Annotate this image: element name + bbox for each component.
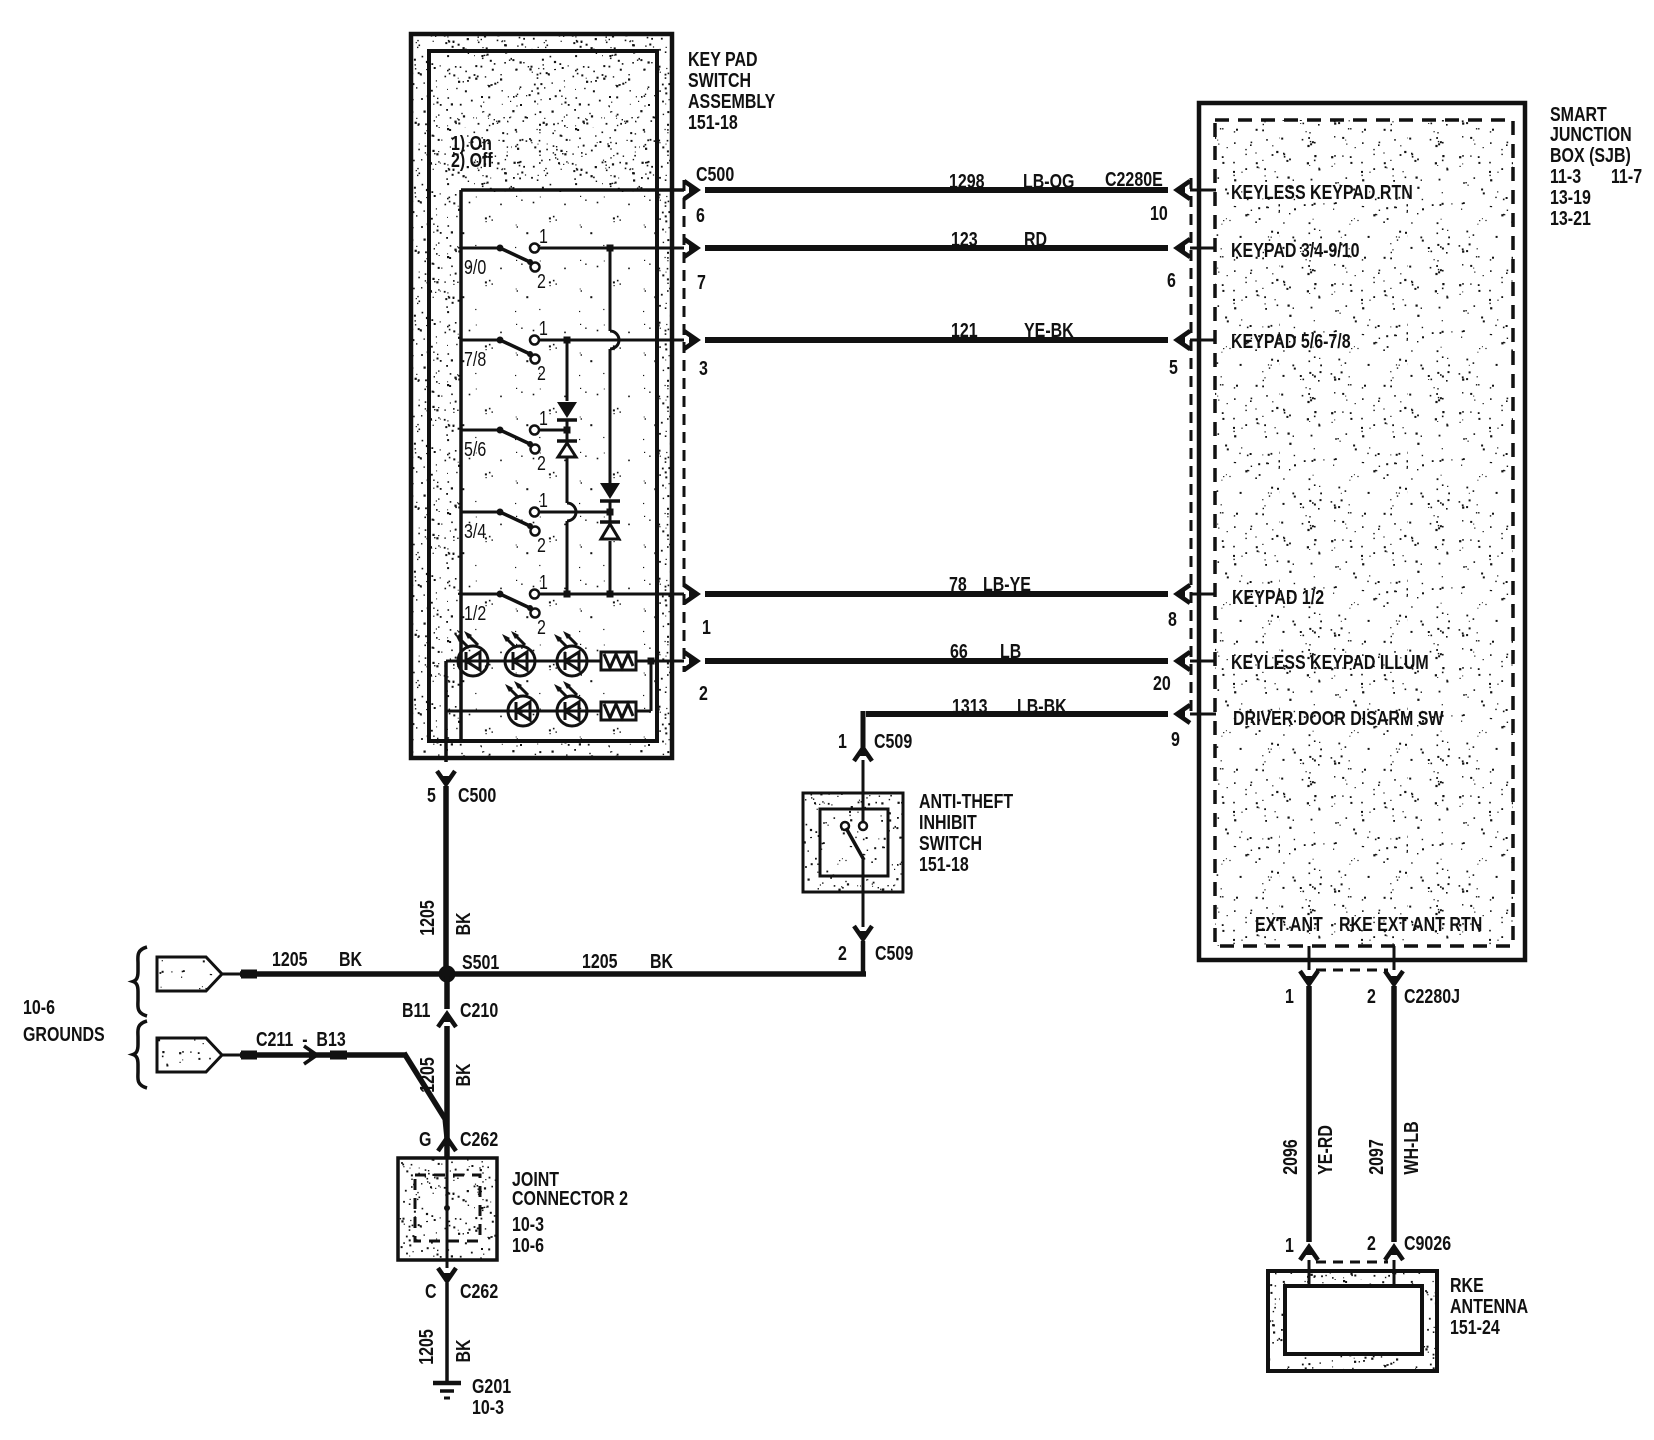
svg-text:KEYLESS KEYPAD RTN: KEYLESS KEYPAD RTN bbox=[1231, 180, 1413, 203]
svg-text:2: 2 bbox=[537, 451, 546, 474]
svg-text:LB-YE: LB-YE bbox=[983, 572, 1031, 595]
svg-text:10-3: 10-3 bbox=[512, 1212, 544, 1235]
svg-text:2: 2 bbox=[1367, 984, 1376, 1007]
svg-text:1: 1 bbox=[702, 615, 711, 638]
svg-text:1: 1 bbox=[1285, 984, 1294, 1007]
svg-text:8: 8 bbox=[1168, 607, 1177, 630]
svg-text:151-24: 151-24 bbox=[1450, 1315, 1500, 1338]
svg-text:2097: 2097 bbox=[1364, 1139, 1387, 1175]
svg-text:5: 5 bbox=[1169, 355, 1178, 378]
svg-text:ANTENNA: ANTENNA bbox=[1450, 1294, 1528, 1317]
svg-text:1205: 1205 bbox=[415, 1057, 438, 1093]
svg-text:GROUNDS: GROUNDS bbox=[23, 1022, 105, 1045]
svg-text:DRIVER DOOR DISARM SW: DRIVER DOOR DISARM SW bbox=[1233, 706, 1444, 729]
svg-text:78: 78 bbox=[949, 572, 967, 595]
svg-text:RKE EXT ANT RTN: RKE EXT ANT RTN bbox=[1339, 912, 1482, 935]
svg-text:KEYPAD 5/6-7/8: KEYPAD 5/6-7/8 bbox=[1231, 329, 1351, 352]
svg-text:C500: C500 bbox=[458, 783, 496, 806]
svg-text:C2280J: C2280J bbox=[1404, 984, 1460, 1007]
svg-text:3/4: 3/4 bbox=[464, 519, 486, 542]
svg-text:5: 5 bbox=[427, 783, 436, 806]
svg-text:151-18: 151-18 bbox=[919, 852, 969, 875]
svg-text:BK: BK bbox=[451, 1339, 474, 1363]
svg-text:13-21: 13-21 bbox=[1550, 206, 1591, 229]
svg-text:121: 121 bbox=[951, 318, 978, 341]
svg-text:G201: G201 bbox=[472, 1374, 511, 1397]
svg-text:C262: C262 bbox=[460, 1279, 498, 1302]
svg-text:1: 1 bbox=[838, 729, 847, 752]
svg-text:1: 1 bbox=[539, 488, 548, 511]
svg-text:SWITCH: SWITCH bbox=[919, 831, 982, 854]
svg-text:1205: 1205 bbox=[414, 1329, 437, 1365]
svg-text:WH-LB: WH-LB bbox=[1399, 1121, 1422, 1174]
svg-text:10-6: 10-6 bbox=[23, 995, 55, 1018]
svg-text:LB-OG: LB-OG bbox=[1023, 169, 1074, 192]
svg-text:1: 1 bbox=[539, 570, 548, 593]
svg-text:KEYPAD 3/4-9/10: KEYPAD 3/4-9/10 bbox=[1231, 238, 1360, 261]
svg-text:BK: BK bbox=[650, 949, 674, 972]
svg-text:KEY PAD: KEY PAD bbox=[688, 47, 758, 70]
svg-text:C500: C500 bbox=[696, 162, 734, 185]
svg-text:1205: 1205 bbox=[582, 949, 618, 972]
svg-text:KEYPAD 1/2: KEYPAD 1/2 bbox=[1232, 585, 1324, 608]
svg-text:2: 2 bbox=[537, 615, 546, 638]
svg-text:BOX (SJB): BOX (SJB) bbox=[1550, 143, 1631, 166]
svg-text:2: 2 bbox=[537, 533, 546, 556]
svg-text:B11: B11 bbox=[402, 998, 430, 1021]
svg-text:2: 2 bbox=[1367, 1231, 1376, 1254]
svg-text:7: 7 bbox=[697, 270, 706, 293]
svg-text:JUNCTION: JUNCTION bbox=[1550, 122, 1632, 145]
svg-text:C: C bbox=[425, 1279, 437, 1302]
svg-text:C211 - B13: C211 - B13 bbox=[256, 1027, 346, 1050]
svg-text:5/6: 5/6 bbox=[464, 437, 486, 460]
svg-text:1205: 1205 bbox=[415, 900, 438, 936]
svg-text:2: 2 bbox=[537, 361, 546, 384]
svg-text:20: 20 bbox=[1153, 671, 1171, 694]
svg-text:1: 1 bbox=[539, 316, 548, 339]
svg-text:151-18: 151-18 bbox=[688, 110, 738, 133]
svg-text:EXT ANT: EXT ANT bbox=[1255, 912, 1323, 935]
svg-text:C509: C509 bbox=[874, 729, 912, 752]
svg-text:G: G bbox=[419, 1127, 431, 1150]
svg-text:INHIBIT: INHIBIT bbox=[919, 810, 977, 833]
svg-text:ASSEMBLY: ASSEMBLY bbox=[688, 89, 775, 112]
svg-text:BK: BK bbox=[451, 912, 474, 936]
svg-text:2) Off: 2) Off bbox=[451, 148, 493, 171]
svg-text:KEYLESS KEYPAD ILLUM: KEYLESS KEYPAD ILLUM bbox=[1231, 650, 1429, 673]
svg-text:9: 9 bbox=[1171, 727, 1180, 750]
svg-text:1/2: 1/2 bbox=[464, 601, 486, 624]
svg-text:1: 1 bbox=[1285, 1233, 1294, 1256]
svg-text:C262: C262 bbox=[460, 1127, 498, 1150]
svg-text:RKE: RKE bbox=[1450, 1273, 1484, 1296]
svg-text:LB: LB bbox=[1000, 639, 1021, 662]
svg-text:3: 3 bbox=[699, 356, 708, 379]
svg-text:SWITCH: SWITCH bbox=[688, 68, 751, 91]
svg-text:2: 2 bbox=[838, 941, 847, 964]
svg-text:66: 66 bbox=[950, 639, 968, 662]
svg-text:RD: RD bbox=[1024, 227, 1047, 250]
svg-text:1313: 1313 bbox=[952, 694, 988, 717]
svg-text:11-7: 11-7 bbox=[1611, 164, 1642, 187]
svg-text:1: 1 bbox=[539, 224, 548, 247]
svg-text:1: 1 bbox=[539, 406, 548, 429]
svg-text:YE-BK: YE-BK bbox=[1024, 318, 1074, 341]
svg-text:2: 2 bbox=[537, 269, 546, 292]
svg-text:1205: 1205 bbox=[272, 947, 308, 970]
svg-text:C509: C509 bbox=[875, 941, 913, 964]
svg-text:11-3: 11-3 bbox=[1550, 164, 1581, 187]
svg-text:YE-RD: YE-RD bbox=[1313, 1125, 1336, 1175]
svg-text:CONNECTOR 2: CONNECTOR 2 bbox=[512, 1186, 628, 1209]
svg-text:9/0: 9/0 bbox=[464, 255, 486, 278]
svg-text:6: 6 bbox=[696, 203, 705, 226]
svg-text:C210: C210 bbox=[460, 998, 498, 1021]
svg-text:10-3: 10-3 bbox=[472, 1395, 504, 1418]
svg-text:LB-BK: LB-BK bbox=[1017, 694, 1067, 717]
svg-text:7/8: 7/8 bbox=[464, 347, 486, 370]
svg-text:1298: 1298 bbox=[949, 169, 985, 192]
svg-text:C2280E: C2280E bbox=[1105, 167, 1163, 190]
svg-text:BK: BK bbox=[339, 947, 363, 970]
svg-text:10-6: 10-6 bbox=[512, 1233, 544, 1256]
svg-text:2: 2 bbox=[699, 681, 708, 704]
svg-text:C9026: C9026 bbox=[1404, 1231, 1451, 1254]
svg-text:13-19: 13-19 bbox=[1550, 185, 1591, 208]
svg-text:6: 6 bbox=[1167, 268, 1176, 291]
svg-text:2096: 2096 bbox=[1278, 1139, 1301, 1175]
svg-text:BK: BK bbox=[451, 1063, 474, 1087]
svg-text:10: 10 bbox=[1150, 201, 1168, 224]
svg-text:ANTI-THEFT: ANTI-THEFT bbox=[919, 789, 1014, 812]
svg-text:123: 123 bbox=[951, 227, 978, 250]
svg-text:S501: S501 bbox=[462, 950, 499, 973]
